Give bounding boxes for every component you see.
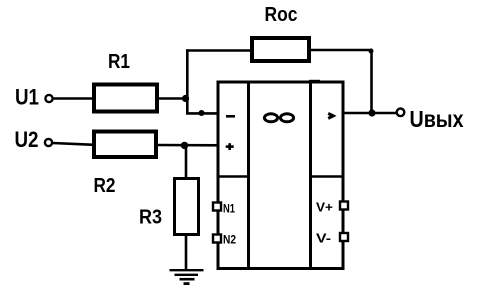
wire feedback right vertical bbox=[370, 50, 373, 114]
op-amp left column horizontal divider bbox=[218, 175, 249, 178]
resistor R1 bbox=[94, 85, 157, 112]
svg-text:V+: V+ bbox=[316, 200, 333, 215]
op-amp right column horizontal divider bbox=[311, 175, 344, 178]
svg-text:Uвых: Uвых bbox=[410, 106, 464, 132]
wire U1 to R1 bbox=[53, 97, 94, 100]
resistor R2 bbox=[94, 132, 156, 158]
op-amp infinity gain symbol bbox=[264, 114, 293, 122]
pin V+ square bbox=[340, 202, 348, 210]
junction node B bbox=[181, 142, 188, 149]
wire to op-amp inverting input bbox=[186, 112, 219, 115]
svg-text:R1: R1 bbox=[108, 51, 130, 73]
svg-text:U1: U1 bbox=[15, 84, 39, 109]
svg-text:U2: U2 bbox=[15, 127, 39, 152]
svg-text:Roc: Roc bbox=[265, 4, 298, 26]
wire op-amp output bbox=[343, 112, 397, 115]
wire feedback left vertical bbox=[186, 49, 189, 114]
op-amp inverting input minus sign bbox=[226, 115, 235, 118]
svg-text:R2: R2 bbox=[94, 175, 116, 197]
svg-text:V-: V- bbox=[316, 231, 331, 246]
junction dot on inverting wire bbox=[199, 110, 205, 116]
wire node B down to R3 bbox=[185, 145, 188, 178]
svg-text:R3: R3 bbox=[139, 207, 162, 229]
pin N1 square bbox=[213, 203, 221, 211]
op-amp divider left bbox=[247, 82, 250, 269]
terminal U1 bbox=[45, 95, 52, 102]
wire R3 to ground bbox=[185, 235, 188, 271]
pin N2 square bbox=[213, 235, 221, 243]
resistor Roc bbox=[252, 38, 309, 61]
ground bbox=[170, 270, 204, 283]
svg-text:N1: N1 bbox=[223, 202, 235, 216]
wire R1 to node A bbox=[158, 97, 189, 100]
resistor R3 bbox=[175, 179, 199, 235]
op-amp non-inverting input plus sign bbox=[226, 143, 234, 150]
junction at Roc right corner bbox=[369, 49, 374, 54]
op-amp divider right bbox=[309, 82, 312, 269]
wire Roc to right corner bbox=[309, 49, 373, 52]
pin V- square bbox=[340, 233, 348, 241]
wire U2 to R2 bbox=[53, 143, 95, 145]
junction output node bbox=[368, 109, 375, 116]
op-amp top-right notch artifact bbox=[309, 80, 320, 83]
op-amp output chevron bbox=[328, 113, 333, 118]
terminal Uout bbox=[397, 109, 405, 117]
wire node A corner to Roc bbox=[186, 49, 252, 52]
junction node A bbox=[182, 95, 189, 102]
op-amp U1 body bbox=[218, 82, 343, 269]
svg-text:N2: N2 bbox=[223, 233, 236, 247]
wire R2 to op-amp non-inverting input bbox=[156, 144, 219, 147]
terminal U2 bbox=[45, 139, 52, 146]
